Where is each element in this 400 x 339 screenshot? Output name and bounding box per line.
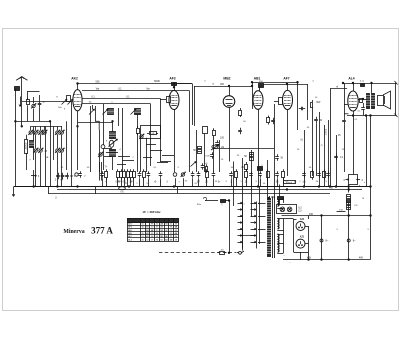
side box V5 cathode <box>279 98 283 105</box>
choke under bus in V6 cathode <box>347 195 351 203</box>
trimmer C1 <box>32 104 35 107</box>
svg-text:DZ V: DZ V <box>70 176 76 178</box>
wire drop x274 <box>274 104 276 199</box>
power transformer secondary upper <box>277 219 278 229</box>
resistor 100 <box>213 131 216 136</box>
svg-text:377 A: 377 A <box>91 226 113 236</box>
svg-text:10000: 10000 <box>326 128 328 135</box>
tube V2 AF3 <box>169 91 179 110</box>
wire drop H3 right <box>160 98 162 161</box>
wire row drops left <box>102 178 104 186</box>
resistor 25 mid <box>245 165 248 170</box>
wire feed to mains switch <box>205 200 218 202</box>
coil 50 mid <box>250 153 254 161</box>
rectifier enclosure <box>293 219 295 252</box>
wire V2 drop to row <box>174 110 176 173</box>
wire lamp riser <box>279 185 281 205</box>
wire V2 top stub <box>174 85 176 90</box>
wire vertical x99 <box>99 130 101 172</box>
svg-text:10000: 10000 <box>24 142 27 150</box>
tube V6 AL4 <box>348 91 358 111</box>
capacitor 2uF block b <box>61 175 65 177</box>
wire vertical x118 <box>118 108 120 126</box>
wire rail Var (H2) <box>82 90 190 92</box>
wire drop H4 right <box>150 103 152 166</box>
wire drop x259.5 <box>259 187 261 245</box>
wire rectifier outputs <box>305 226 309 228</box>
pilot lamp box <box>277 205 297 214</box>
wire rail right of V3 <box>252 82 298 84</box>
wire bus1-bus3 tie x95.6 <box>95 187 97 194</box>
wire antenna row <box>15 121 50 123</box>
power transformer core <box>272 197 274 259</box>
resistor -10 <box>150 132 157 135</box>
wire vertical x122 <box>122 108 124 172</box>
wire nf feedback <box>330 88 347 90</box>
side box V6 screen <box>360 99 363 103</box>
wire V1 bottom net to T1 <box>77 126 79 170</box>
wire vertical x95 <box>95 106 97 121</box>
wire rectifier cathode down <box>300 252 302 260</box>
wire rail 0.1 (H3) <box>82 98 160 100</box>
filter capacitor C31 8uF <box>348 216 350 260</box>
capacitor 50 right mid <box>275 156 279 158</box>
wire speaker return drops <box>366 116 368 187</box>
svg-text:Var: Var <box>146 88 150 91</box>
svg-text:MB2: MB2 <box>223 76 230 80</box>
wire V1 top to HT rail <box>77 84 79 90</box>
svg-text:AF3: AF3 <box>169 76 175 80</box>
osc frame double vertical <box>99 162 101 181</box>
IF transformer T2 cap <box>203 127 208 134</box>
wire V6 cathode into bias box <box>353 161 355 175</box>
capacitor antenna pad <box>38 103 42 105</box>
wire tap to rectifier box <box>284 218 294 220</box>
resistor small x240 <box>239 111 242 116</box>
trimmer C6 osc <box>56 131 59 134</box>
wire drop x251 to switch <box>251 150 253 217</box>
wire vertical x103.6 <box>103 104 105 140</box>
wire T2 drops <box>204 134 206 173</box>
svg-text:30000: 30000 <box>286 183 293 185</box>
capacitor arrow x92 <box>89 109 95 115</box>
wire drop x242 to switch <box>242 158 244 251</box>
trimmer arrow left of coil B <box>131 109 137 115</box>
wire V4 drop <box>258 109 260 186</box>
rectifier tube V8 AZ11 <box>296 239 305 248</box>
wire drop x371 to OT <box>371 83 373 93</box>
mains lead dashed <box>159 252 237 254</box>
dark boxlet on rail right of V6 <box>361 84 365 87</box>
svg-text:150: 150 <box>309 213 314 216</box>
wire stub x344 <box>344 84 346 114</box>
output transformer T3 primary <box>367 94 370 109</box>
svg-text:Var: Var <box>96 88 100 91</box>
wire vertical x50 <box>50 121 52 186</box>
capacitor 2uF block a <box>56 175 60 177</box>
wire secondary top to lamps <box>277 198 283 204</box>
wire drop x324 <box>324 125 326 187</box>
wire gang top row <box>31 126 63 128</box>
filter capacitor C30 8uF <box>321 216 323 260</box>
pilot lamp 2 <box>287 207 292 212</box>
tube V5 AF7 <box>283 90 293 109</box>
wire drop x297 from rail <box>297 82 299 130</box>
terminal tick bottom right <box>395 114 398 118</box>
wire V2 grid cap right <box>176 83 192 85</box>
wire drop x319 <box>319 112 321 187</box>
wire drop x304 <box>304 130 306 187</box>
wire grid V1 from antenna <box>22 101 73 103</box>
capacitor 0.1 tone <box>361 107 365 109</box>
band coil upper B <box>135 109 141 115</box>
resistor 30000 top of lamps <box>284 181 296 184</box>
wire rail grid (H4) <box>82 103 150 105</box>
resistor small x268 <box>267 118 270 123</box>
wire vertical x66.5 <box>66 121 68 170</box>
feedback box <box>141 126 161 139</box>
terminal tick top right <box>395 81 398 85</box>
wire V3 top stub <box>229 86 231 96</box>
tube V4 AB1 <box>253 91 263 110</box>
wire box over V3 <box>194 86 252 88</box>
coil 50 det cluster <box>198 147 202 154</box>
trimmer arrow left of coil A <box>103 109 109 115</box>
wire vertical x196.6 <box>196 130 198 172</box>
ground symbol <box>13 187 15 197</box>
antenna <box>21 77 23 88</box>
wire T1 leads <box>112 122 114 131</box>
capacitor circle x76.5 <box>75 173 78 176</box>
grid cap box V2 <box>172 83 177 86</box>
band coil upper A <box>108 109 114 115</box>
trimmer C5 gang <box>43 131 46 134</box>
svg-text:500: 500 <box>96 80 101 83</box>
wire vertical x219.3 <box>219 140 221 172</box>
wire coil B drop <box>137 114 139 128</box>
svg-text:AZ1: AZ1 <box>300 235 305 238</box>
trimmer C4 gang <box>39 131 42 134</box>
wire vertical x71 <box>71 102 73 187</box>
resistor 50 box <box>314 107 320 112</box>
wire drop x267.5 transformer <box>267 160 269 199</box>
wire drop x328 <box>328 120 330 187</box>
trimmer C8 row2 <box>34 149 37 152</box>
coil B lower parts <box>137 129 140 134</box>
label 150 tick <box>337 211 346 213</box>
capacitor on grid return <box>342 120 346 122</box>
wire H-line mid 161 <box>160 161 171 163</box>
wire AF line y148.5 <box>213 148 274 150</box>
diode load cap <box>215 142 219 144</box>
wire vertical x90.6 <box>90 106 92 172</box>
capacitor 10 right <box>314 119 318 121</box>
oscillator coil T1 upper <box>110 132 116 139</box>
switch long link <box>240 235 257 237</box>
tube V1 AK2 <box>73 90 82 111</box>
component 1/4 on switch line <box>220 252 225 255</box>
capacitor 0.1 at 336 <box>336 135 338 187</box>
wire drop x330 long <box>330 89 332 187</box>
wire V6 top stub <box>353 83 355 91</box>
tuning gang frame <box>33 126 35 160</box>
svg-text:AL4: AL4 <box>348 76 354 80</box>
resistor 10 fuse <box>221 200 226 203</box>
band switch wafer 2 <box>256 202 258 249</box>
dark box at transformer top <box>278 197 284 200</box>
wire V5 top stub <box>287 84 289 90</box>
capacitor 50 det <box>201 165 205 167</box>
wire x308 drop <box>308 216 310 220</box>
speaker terminal bracket <box>395 83 397 116</box>
resistor RW <box>311 103 313 108</box>
wire speaker bottom rail <box>347 115 397 117</box>
switch output stubs <box>258 203 266 205</box>
side box V1 cathode <box>67 96 71 102</box>
capacitor 0.05 det <box>210 154 214 156</box>
wire V6 cathode down <box>353 111 355 161</box>
wire plate to OT <box>358 99 366 101</box>
bus rail third <box>48 193 330 195</box>
HT bottom line <box>283 259 371 261</box>
antenna coupling coil L1 <box>15 87 20 91</box>
HT line 150 <box>282 215 371 217</box>
power transformer primary <box>268 199 271 257</box>
capacitor arrow pair on grid line a <box>62 99 68 105</box>
capacitor +3 AVC <box>31 175 37 177</box>
junction dots <box>77 83 79 85</box>
wire V5 cathode drop <box>287 110 289 176</box>
wire V3 cathode drop <box>229 107 231 161</box>
oscillator coil T1 former <box>109 140 114 147</box>
svg-text:AZ1: AZ1 <box>300 218 305 221</box>
wire bus tie x177.5 <box>177 187 179 194</box>
step wires under osc coils <box>104 148 112 150</box>
svg-text:AB1: AB1 <box>254 76 261 80</box>
wire top join antenna <box>28 91 40 93</box>
wire switch column <box>218 200 220 202</box>
trimmer C9 row2 <box>39 149 42 152</box>
wire drop H2 right <box>189 91 191 172</box>
power transformer secondary lower <box>277 234 278 252</box>
volume pot <box>212 145 218 148</box>
pilot lamp 1 <box>280 207 285 212</box>
component row small parts <box>100 173 104 175</box>
trimmer C10 row2 <box>56 149 59 152</box>
wire rail 5000 (H1) <box>78 83 193 85</box>
capacitor coupling 302 <box>301 107 303 111</box>
field coil choke <box>347 201 351 210</box>
wire drop x307 <box>307 84 309 120</box>
capacitor DZ block <box>65 175 69 177</box>
svg-text:nf: nf <box>336 85 338 88</box>
svg-text:5000: 5000 <box>154 79 160 83</box>
grid cap box V4 250 <box>259 84 264 88</box>
oscillator coil T1 lower <box>110 150 116 157</box>
wire V5 grid left <box>274 101 279 103</box>
wire V6 grid return <box>344 104 348 106</box>
resistor 25 det <box>206 167 208 172</box>
svg-text:JF = 468 kHz: JF = 468 kHz <box>142 210 161 214</box>
svg-text:AF7: AF7 <box>283 76 289 80</box>
pot P1 osc <box>101 145 105 149</box>
coil dark in gang <box>30 141 34 148</box>
pot arrow det <box>191 162 197 167</box>
band switch wafer 1 <box>242 202 244 249</box>
capacitor arrow pair on grid line b <box>68 99 74 105</box>
svg-text:15: 15 <box>271 195 275 199</box>
wire V4 grid rail right <box>263 84 307 86</box>
wire vertical x45.5 <box>45 126 47 186</box>
wire output top rail <box>343 83 397 85</box>
wire drop x233.5 to switch <box>233 162 235 207</box>
trimmer C7 osc <box>60 131 63 134</box>
step wires under feedback box <box>146 144 156 146</box>
side box V2 cathode <box>167 97 171 103</box>
trimmer C3 gang <box>34 131 37 134</box>
capacitor small x273 <box>271 120 275 122</box>
svg-text:46V: 46V <box>359 256 364 259</box>
output transformer T3 secondary <box>372 94 375 109</box>
junction oval 77a <box>119 187 126 190</box>
trimmer C2 gang <box>29 131 32 134</box>
power transformer secondary top small <box>277 199 278 206</box>
wire ground-lead left <box>15 121 17 186</box>
wire V1 cathode down <box>77 111 79 127</box>
bias resistor network <box>349 175 358 185</box>
wire feedback drop <box>140 138 142 172</box>
wire gang bottoms <box>35 153 37 187</box>
trimmer C11 row2 <box>60 149 63 152</box>
secondary taps <box>277 199 283 201</box>
tube V3 AB2 <box>223 96 235 108</box>
wire x312 drop <box>312 109 314 176</box>
resistor 10000 vertical <box>25 140 28 154</box>
loudspeaker <box>378 96 384 106</box>
bus rail second <box>57 189 362 191</box>
ground bus main <box>14 186 371 188</box>
resistor 30 antenna series <box>27 100 30 105</box>
trimmer C12 osc pad <box>99 153 102 156</box>
rectifier tube V7 AZ11 <box>296 222 305 231</box>
svg-text:100: 100 <box>220 137 225 140</box>
tube data table <box>128 219 179 242</box>
svg-text:Minerva: Minerva <box>63 229 84 235</box>
capacitor small x240 <box>238 130 242 132</box>
mains switch S <box>239 251 242 254</box>
dark box 50 on row <box>258 167 263 171</box>
svg-text:AK2: AK2 <box>71 76 78 80</box>
